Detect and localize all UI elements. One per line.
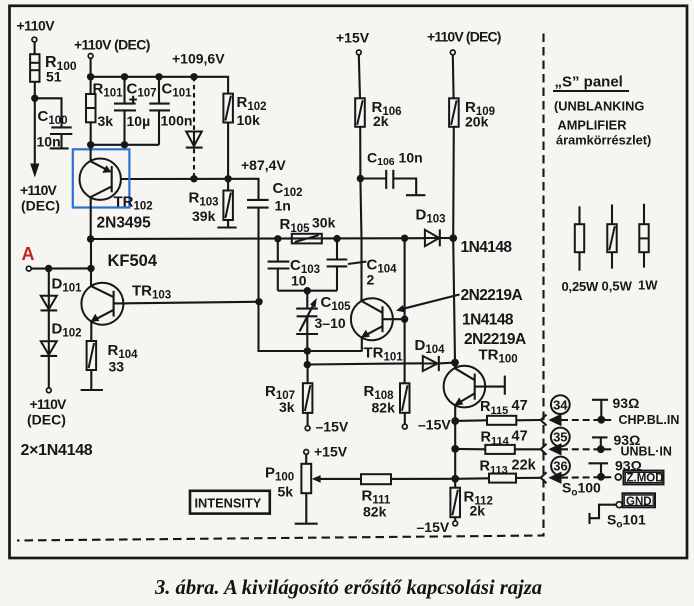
svg-text:30k: 30k bbox=[312, 215, 336, 231]
svg-text:100n: 100n bbox=[161, 113, 193, 129]
svg-text:2: 2 bbox=[367, 272, 375, 288]
svg-text:82k: 82k bbox=[363, 504, 387, 520]
svg-text:(DEC): (DEC) bbox=[21, 198, 60, 214]
coax arrow CHP.BL.IN (dashed, row 34) bbox=[548, 414, 614, 426]
socket So101 (GND) bbox=[590, 493, 656, 530]
potentiometer P100 5k with +15V terminal bbox=[265, 444, 361, 524]
svg-text:+110V: +110V bbox=[30, 396, 68, 412]
node +110V (DEC) terminal bbox=[74, 37, 150, 59]
svg-text:1n: 1n bbox=[275, 198, 291, 214]
wire emitter bus bbox=[454, 421, 456, 488]
trimmer capacitor C105 3-10 bbox=[296, 291, 351, 351]
capacitor C101 100n bbox=[149, 77, 192, 145]
svg-text:5k: 5k bbox=[278, 484, 294, 500]
node +110V terminal (top-left) bbox=[17, 18, 56, 42]
wire lower rail to D104 bbox=[307, 363, 423, 364]
svg-text:INTENSITY: INTENSITY bbox=[195, 496, 262, 511]
svg-text:93Ω: 93Ω bbox=[613, 395, 640, 411]
svg-text:+110V: +110V bbox=[17, 18, 56, 34]
wire C103/C104 bottom rail bbox=[278, 290, 337, 292]
wire bottom rail of R101/C107/C101 bbox=[91, 144, 159, 146]
svg-text:GND: GND bbox=[626, 496, 652, 508]
node junction C105 top bbox=[304, 287, 311, 294]
svg-text:(UNBLANKING: (UNBLANKING bbox=[554, 99, 644, 114]
svg-text:R105: R105 bbox=[280, 216, 311, 235]
svg-text:–15V: –15V bbox=[316, 419, 349, 435]
diode D102 bbox=[41, 311, 82, 388]
termination 93R stub (row 35) bbox=[592, 432, 640, 453]
svg-text:35: 35 bbox=[553, 430, 567, 445]
wire collector bus bbox=[404, 238, 406, 383]
"S" panel legend heading bbox=[553, 74, 651, 148]
capacitor C106 10n bbox=[357, 150, 426, 196]
resistor R112 2k bbox=[417, 488, 493, 535]
svg-text:R103: R103 bbox=[189, 190, 219, 209]
svg-text:+87,4V: +87,4V bbox=[241, 157, 286, 173]
svg-text:„S” panel: „S” panel bbox=[555, 74, 623, 91]
wire bbox=[90, 58, 92, 77]
svg-text:33: 33 bbox=[109, 359, 125, 375]
svg-text:R114: R114 bbox=[481, 430, 510, 448]
svg-text:AMPLIFIER: AMPLIFIER bbox=[558, 118, 627, 133]
capacitor C103 10 bbox=[268, 239, 320, 291]
svg-text:+110V (DEC): +110V (DEC) bbox=[427, 29, 501, 45]
svg-text:34: 34 bbox=[553, 397, 568, 412]
svg-text:1W: 1W bbox=[638, 278, 658, 293]
transistor TR103 KF504 (NPN) bbox=[81, 252, 171, 341]
svg-text:P100: P100 bbox=[265, 465, 294, 484]
coax arrow UNBL.IN (dashed, row 35) bbox=[548, 443, 612, 455]
wire main rail bbox=[91, 237, 425, 240]
svg-text:36: 36 bbox=[553, 459, 567, 474]
svg-text:C105: C105 bbox=[321, 294, 352, 313]
wire +109,6V top rail bbox=[91, 77, 229, 94]
legend resistor symbol 0,25W bbox=[562, 206, 600, 294]
capacitor C100 10n bbox=[37, 108, 73, 150]
svg-text:47: 47 bbox=[512, 398, 528, 414]
svg-text:1N4148: 1N4148 bbox=[462, 312, 514, 329]
wire bbox=[34, 42, 36, 54]
node junctions on emitter bus bbox=[451, 417, 459, 483]
svg-text:10n: 10n bbox=[37, 134, 61, 150]
wire to +110V (DEC) arrow bbox=[34, 98, 36, 164]
svg-text:R102: R102 bbox=[237, 94, 267, 113]
node junctions bbox=[87, 141, 128, 148]
svg-text:2N3495: 2N3495 bbox=[97, 215, 152, 232]
pin 34 bbox=[551, 395, 570, 414]
resistor R103 39k bbox=[189, 179, 237, 228]
svg-text:10: 10 bbox=[291, 273, 307, 289]
termination 93R stub (row 34) bbox=[592, 395, 639, 424]
svg-text:D103: D103 bbox=[416, 207, 446, 226]
svg-text:0,25W: 0,25W bbox=[562, 279, 600, 294]
svg-text:47: 47 bbox=[512, 429, 528, 445]
resistor R109 20k with +110V (DEC) terminal bbox=[427, 29, 501, 239]
wire stem to lower rail bbox=[306, 351, 308, 365]
resistor R114 47 bbox=[455, 429, 540, 454]
wire bbox=[35, 98, 62, 127]
svg-text:TR101: TR101 bbox=[364, 345, 404, 364]
wire emitter rail of TR101 bbox=[259, 302, 362, 351]
pin 35 bbox=[551, 428, 570, 447]
resistor R106 2k with +15V terminal bbox=[336, 30, 402, 239]
node junction bbox=[304, 347, 311, 354]
socket So100 (Z.MOD) bbox=[562, 471, 664, 499]
svg-text:C107: C107 bbox=[127, 81, 157, 100]
legend resistor symbol 1W bbox=[638, 204, 658, 293]
resistor R113 22k bbox=[455, 458, 540, 483]
resistor R111 82k bbox=[361, 474, 455, 519]
svg-text:UNBL·IN: UNBL·IN bbox=[621, 445, 672, 459]
svg-text:So100: So100 bbox=[562, 480, 601, 499]
svg-text:51: 51 bbox=[46, 69, 62, 85]
diode (dashed branch from +109,6V) bbox=[186, 77, 203, 179]
resistor R100 51 bbox=[30, 54, 77, 85]
"S" panel dashed boundary bbox=[17, 34, 544, 541]
svg-text:Z.MOD: Z.MOD bbox=[627, 473, 664, 485]
svg-text:D104: D104 bbox=[415, 337, 446, 356]
wire +87,4V rail bbox=[121, 157, 287, 200]
svg-text:2k: 2k bbox=[373, 113, 389, 129]
svg-text:10µ: 10µ bbox=[127, 113, 151, 129]
svg-text:D101: D101 bbox=[52, 276, 83, 295]
svg-text:3k: 3k bbox=[98, 113, 114, 129]
resistor R104 33 bbox=[81, 341, 139, 390]
node junctions on +87,4V rail bbox=[190, 175, 232, 182]
node junction TR103 collector branch bbox=[255, 298, 262, 305]
node junctions on main rail bbox=[274, 234, 457, 242]
svg-text:CHP.BL.IN: CHP.BL.IN bbox=[619, 413, 680, 427]
svg-text:–15V: –15V bbox=[418, 417, 451, 433]
svg-text:TR100: TR100 bbox=[479, 347, 518, 366]
svg-text:39k: 39k bbox=[192, 208, 216, 224]
svg-text:+15V: +15V bbox=[314, 444, 348, 460]
svg-text:KF504: KF504 bbox=[108, 252, 158, 270]
svg-text:22k: 22k bbox=[512, 458, 537, 474]
capacitor C107 10µ (electrolytic +) bbox=[114, 77, 157, 145]
diode D103 1N4148 bbox=[416, 207, 513, 257]
connector arrowhead (panel edge, row 36) bbox=[541, 472, 547, 483]
INTENSITY box bbox=[190, 491, 270, 514]
resistor R107 3k bbox=[265, 365, 349, 435]
wire bbox=[34, 82, 36, 99]
coax arrow Z.MOD (dashed, row 36) bbox=[548, 472, 613, 484]
figure caption bbox=[154, 577, 542, 599]
svg-text:R115: R115 bbox=[480, 399, 508, 417]
resistor R115 47 bbox=[455, 398, 540, 425]
svg-text:+15V: +15V bbox=[336, 30, 370, 46]
svg-text:2N2219A: 2N2219A bbox=[464, 331, 526, 348]
svg-text:(DEC): (DEC) bbox=[27, 412, 66, 428]
svg-text:D102: D102 bbox=[52, 321, 82, 340]
diode D104 1N4148 bbox=[415, 312, 514, 372]
node junctions on top rail bbox=[87, 73, 198, 80]
connector arrowhead (panel edge, row 35) bbox=[541, 444, 547, 455]
svg-text:0,5W: 0,5W bbox=[602, 279, 633, 294]
svg-text:2N2219A: 2N2219A bbox=[461, 287, 523, 304]
svg-text:TR103: TR103 bbox=[132, 283, 171, 302]
svg-text:áramkörrészlet): áramkörrészlet) bbox=[556, 133, 651, 148]
svg-text:TR102: TR102 bbox=[114, 194, 153, 213]
svg-text:So101: So101 bbox=[607, 512, 646, 531]
svg-text:R113: R113 bbox=[480, 459, 508, 477]
transistor TR100 2N2219A (NPN, output) bbox=[444, 331, 526, 421]
svg-text:A: A bbox=[22, 244, 35, 264]
pin 36 bbox=[551, 457, 570, 476]
wire TR103 collector bbox=[123, 302, 259, 304]
svg-text:82k: 82k bbox=[372, 400, 396, 416]
svg-text:+110V (DEC): +110V (DEC) bbox=[74, 37, 150, 53]
svg-text:2k: 2k bbox=[470, 503, 486, 519]
resistor R105 30k bbox=[280, 215, 336, 244]
node junction TR101 collector bbox=[401, 316, 408, 323]
svg-text:C100: C100 bbox=[38, 108, 68, 127]
svg-text:3. ábra. A kivilágosító erősít: 3. ábra. A kivilágosító erősítő kapcsolá… bbox=[154, 577, 542, 599]
svg-text:+110V: +110V bbox=[20, 182, 58, 198]
svg-text:C102: C102 bbox=[273, 180, 303, 199]
node junction bbox=[31, 95, 38, 102]
resistor R101 3k bbox=[86, 77, 123, 145]
label 2N2219A with leader arrow to TR101 bbox=[396, 287, 522, 312]
connector arrowhead (panel edge, row 34) bbox=[541, 415, 547, 426]
node junction bbox=[304, 361, 311, 368]
resistor R108 82k bbox=[364, 383, 452, 433]
svg-text:1N4148: 1N4148 bbox=[461, 239, 513, 256]
svg-text:–15V: –15V bbox=[417, 519, 450, 535]
capacitor C102 1n bbox=[247, 180, 303, 302]
termination 93R stub (row 36) bbox=[589, 458, 642, 481]
svg-text:2×1N4148: 2×1N4148 bbox=[21, 442, 93, 459]
capacitor C104 2 bbox=[327, 239, 398, 291]
svg-text:C101: C101 bbox=[162, 81, 193, 100]
node A (input) bbox=[22, 239, 95, 272]
svg-text:C106 10n: C106 10n bbox=[367, 150, 423, 169]
diode D101 bbox=[41, 269, 83, 311]
svg-text:3–10: 3–10 bbox=[315, 315, 346, 331]
arrow down +110V (DEC) bbox=[20, 164, 60, 214]
svg-text:R101: R101 bbox=[93, 81, 124, 100]
svg-text:3k: 3k bbox=[279, 399, 295, 415]
node junction TR102 collector bbox=[87, 235, 94, 242]
svg-text:20k: 20k bbox=[465, 114, 489, 130]
legend resistor symbol 0,5W bbox=[602, 205, 633, 294]
transistor TR101 2N2219A (NPN) bbox=[351, 238, 405, 364]
transistor TR102 2N3495 (PNP, blue highlight box) bbox=[73, 145, 153, 239]
svg-text:10k: 10k bbox=[237, 112, 261, 128]
node +110V (DEC) terminal (below D102) bbox=[27, 388, 67, 428]
wire D103 node down to TR100 base bbox=[453, 238, 455, 363]
resistor R102 10k bbox=[223, 94, 266, 179]
svg-text:+109,6V: +109,6V bbox=[172, 51, 225, 67]
